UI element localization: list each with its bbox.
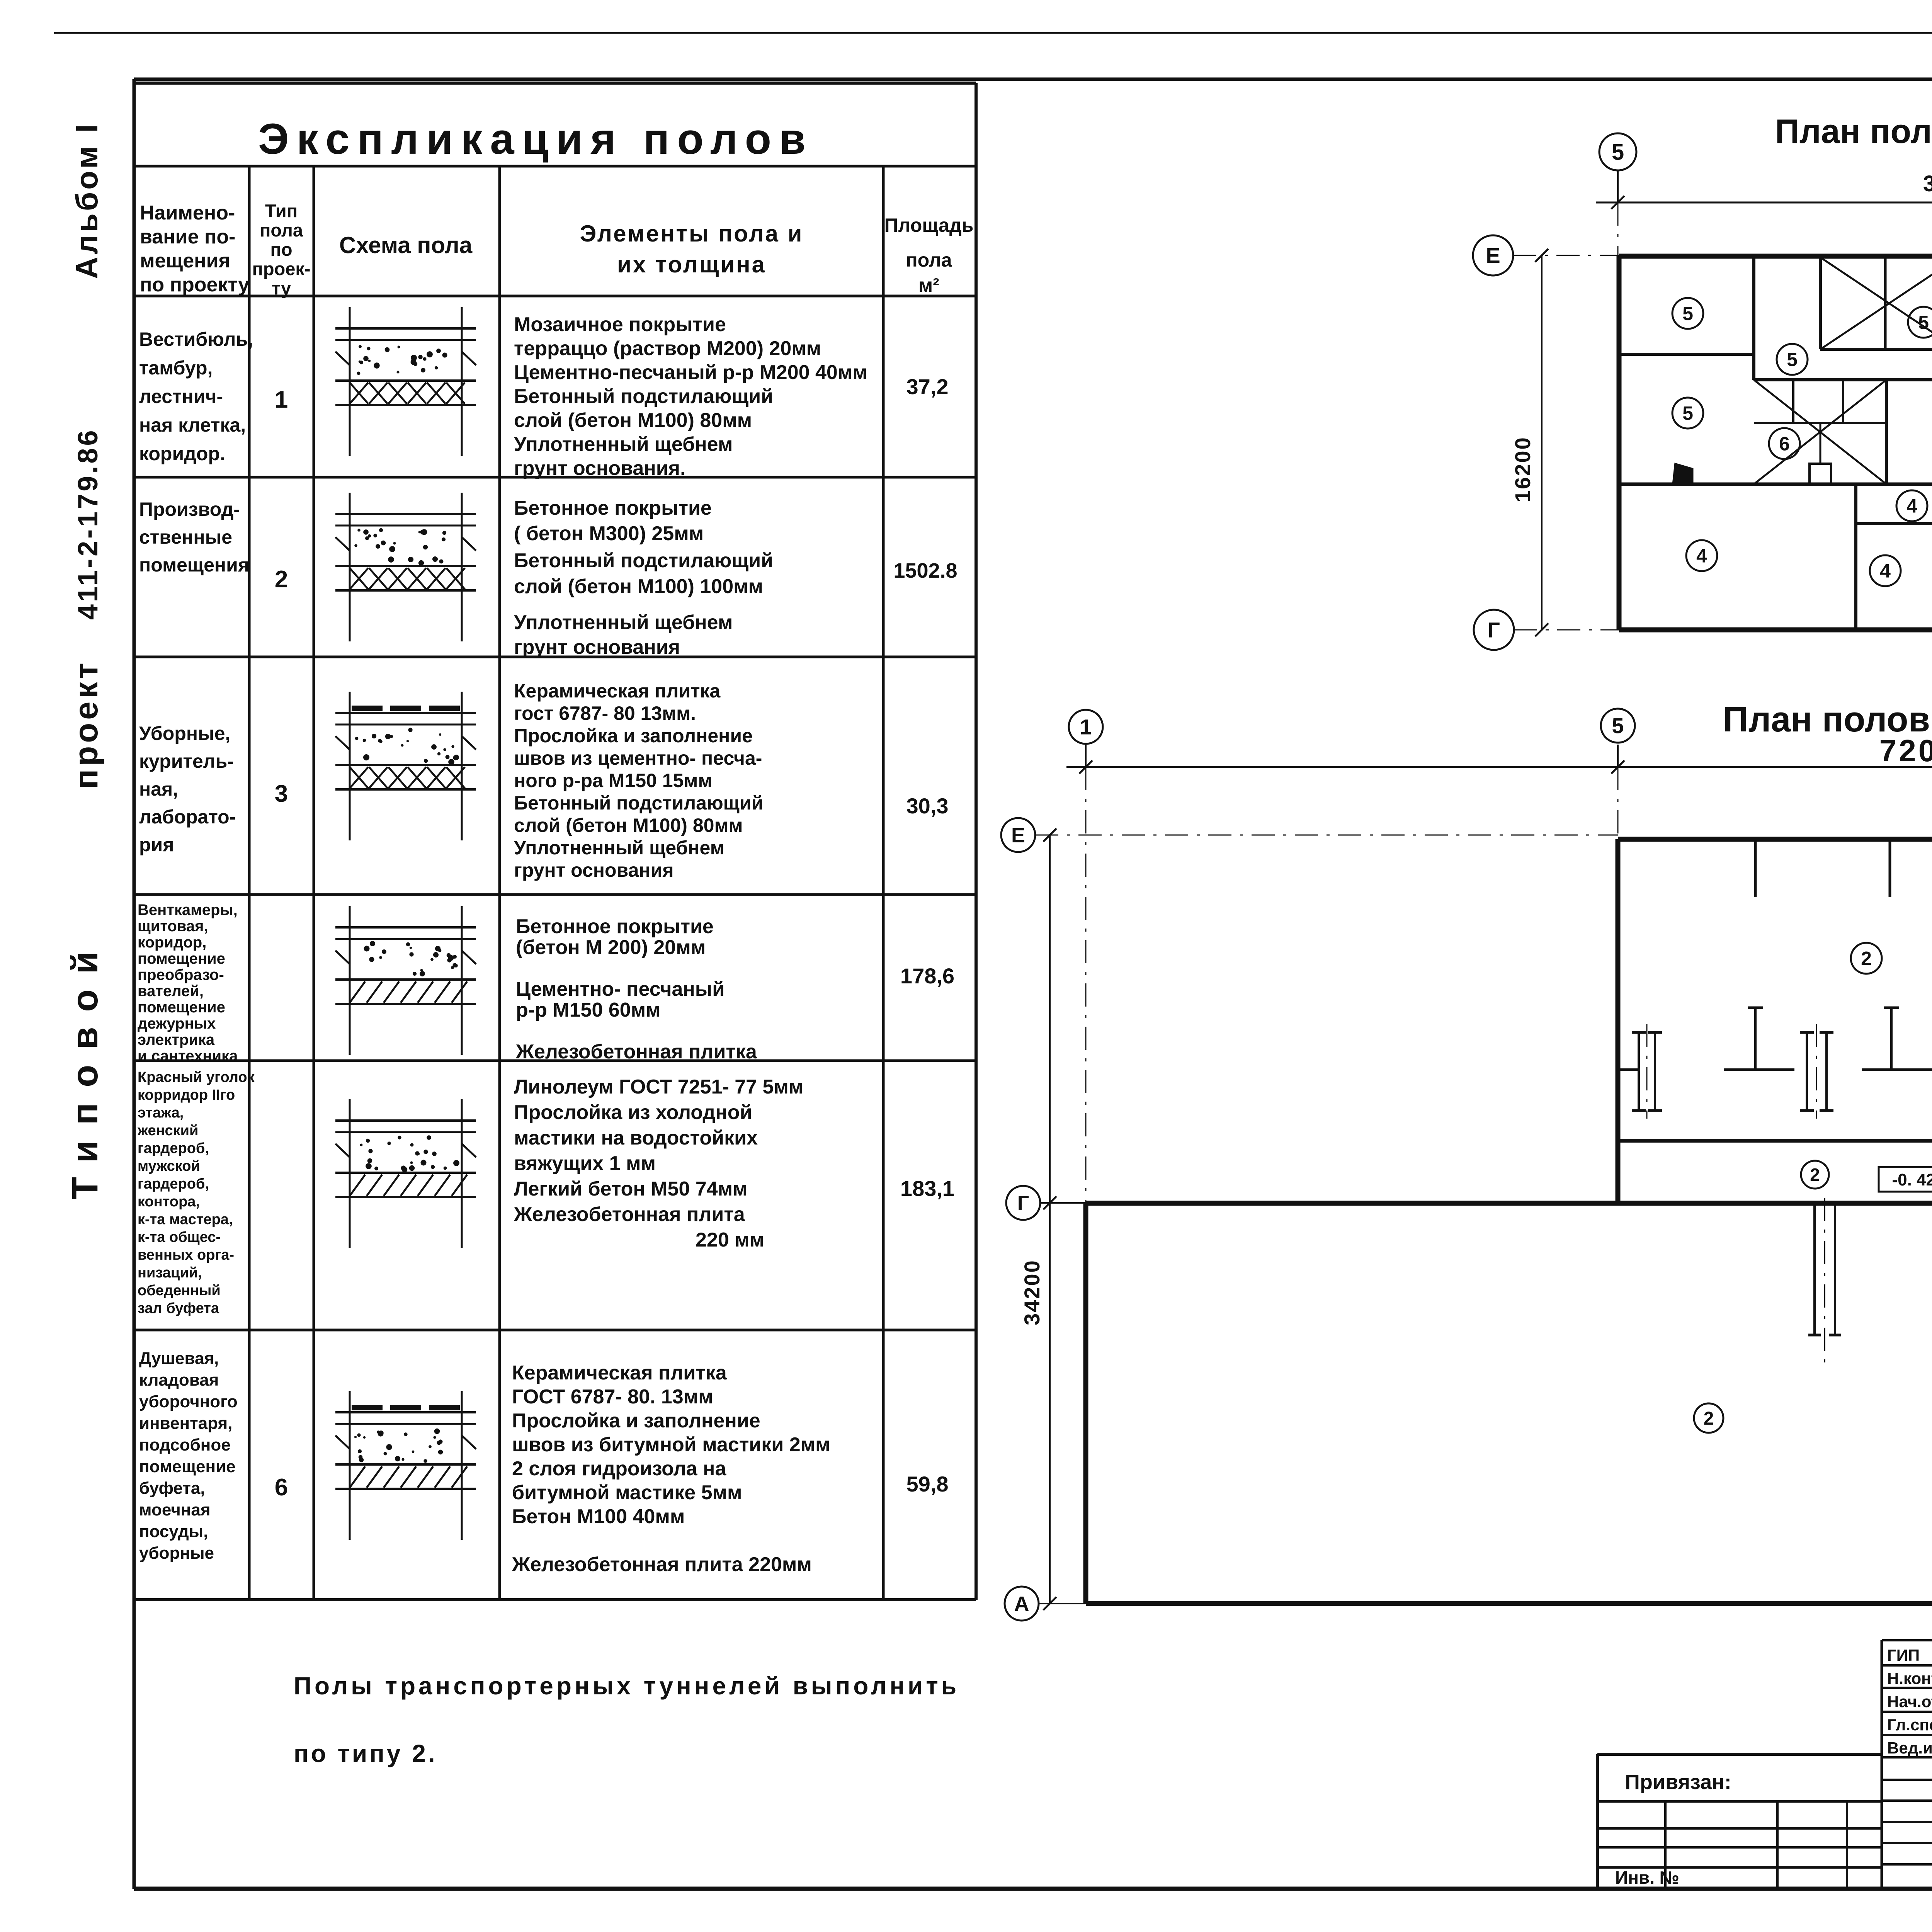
svg-text:Н.контр: Н.контр bbox=[1887, 1669, 1932, 1687]
svg-text:по: по bbox=[270, 239, 292, 260]
svg-text:Инв. №: Инв. № bbox=[1615, 1867, 1679, 1888]
svg-text:( бетон М300) 25мм: ( бетон М300) 25мм bbox=[514, 522, 704, 545]
svg-text:5: 5 bbox=[1612, 714, 1624, 738]
svg-text:Уплотненный щебнем: Уплотненный щебнем bbox=[514, 433, 733, 456]
svg-text:2: 2 bbox=[1810, 1165, 1820, 1185]
svg-text:грунт основания: грунт основания bbox=[514, 636, 680, 658]
svg-text:помещение: помещение bbox=[138, 950, 225, 967]
svg-text:3: 3 bbox=[275, 781, 288, 807]
svg-text:посуды,: посуды, bbox=[139, 1522, 208, 1541]
svg-text:слой (бетон М100) 100мм: слой (бетон М100) 100мм bbox=[514, 575, 763, 598]
svg-text:(бетон М 200) 20мм: (бетон М 200) 20мм bbox=[516, 936, 706, 959]
svg-text:лестнич-: лестнич- bbox=[139, 386, 223, 407]
svg-text:ГИП: ГИП bbox=[1887, 1646, 1920, 1664]
svg-text:лаборато-: лаборато- bbox=[139, 806, 236, 828]
svg-text:женский: женский bbox=[137, 1122, 198, 1139]
svg-text:Производ-: Производ- bbox=[139, 498, 240, 520]
svg-text:Г: Г bbox=[1017, 1192, 1029, 1215]
svg-text:мастики на водостойких: мастики на водостойких bbox=[514, 1127, 758, 1149]
svg-text:Схема пола: Схема пола bbox=[339, 232, 473, 258]
svg-text:этажа,: этажа, bbox=[138, 1105, 184, 1121]
svg-text:дежурных: дежурных bbox=[138, 1015, 216, 1032]
svg-text:уборочного: уборочного bbox=[139, 1392, 238, 1411]
svg-text:помещение: помещение bbox=[139, 1457, 236, 1476]
svg-text:Альбом I: Альбом I bbox=[70, 122, 104, 279]
svg-text:преобразо-: преобразо- bbox=[138, 966, 224, 983]
svg-text:Нач.отд.: Нач.отд. bbox=[1887, 1692, 1932, 1711]
svg-text:контора,: контора, bbox=[138, 1194, 200, 1210]
svg-text:инвентаря,: инвентаря, bbox=[139, 1414, 232, 1433]
svg-text:к-та мастера,: к-та мастера, bbox=[138, 1211, 233, 1228]
svg-text:4: 4 bbox=[1696, 545, 1707, 567]
svg-text:1: 1 bbox=[275, 386, 288, 413]
svg-text:помещение: помещение bbox=[138, 999, 225, 1016]
svg-text:Бетонный подстилающий: Бетонный подстилающий bbox=[514, 549, 773, 572]
svg-text:ственные: ственные bbox=[139, 526, 232, 548]
svg-text:37,2: 37,2 bbox=[906, 374, 949, 399]
svg-text:проек-: проек- bbox=[252, 259, 310, 279]
svg-text:их толщина: их толщина bbox=[617, 252, 766, 277]
svg-text:по типу 2.: по типу 2. bbox=[294, 1740, 437, 1767]
svg-text:Бетонный подстилающий: Бетонный подстилающий bbox=[514, 792, 763, 814]
svg-text:Красный уголок: Красный уголок bbox=[138, 1069, 255, 1085]
svg-text:по проекту: по проекту bbox=[140, 274, 249, 296]
svg-text:Уплотненный щебнем: Уплотненный щебнем bbox=[514, 837, 724, 859]
svg-text:ная,: ная, bbox=[139, 778, 178, 800]
svg-text:пола: пола bbox=[906, 249, 952, 271]
svg-text:5: 5 bbox=[1918, 312, 1929, 333]
svg-text:мужской: мужской bbox=[138, 1158, 200, 1174]
svg-text:буфета,: буфета, bbox=[139, 1479, 205, 1498]
svg-text:грунт основания: грунт основания bbox=[514, 859, 674, 881]
svg-text:Е: Е bbox=[1011, 824, 1025, 847]
svg-text:178,6: 178,6 bbox=[900, 964, 954, 988]
svg-text:щитовая,: щитовая, bbox=[138, 918, 208, 935]
svg-text:Наимено-: Наимено- bbox=[140, 202, 235, 224]
svg-text:5: 5 bbox=[1682, 303, 1693, 325]
svg-text:2: 2 bbox=[1704, 1408, 1714, 1429]
svg-text:ту: ту bbox=[272, 278, 291, 298]
svg-text:уборные: уборные bbox=[139, 1544, 214, 1563]
svg-text:гардероб,: гардероб, bbox=[138, 1140, 209, 1156]
svg-text:зал буфета: зал буфета bbox=[138, 1300, 219, 1316]
svg-text:проект: проект bbox=[68, 660, 105, 789]
svg-text:рия: рия bbox=[139, 834, 174, 855]
svg-text:220 мм: 220 мм bbox=[696, 1229, 764, 1251]
svg-text:Легкий бетон М50 74мм: Легкий бетон М50 74мм bbox=[514, 1178, 748, 1200]
svg-text:2: 2 bbox=[1861, 948, 1872, 969]
svg-text:Привязан:: Привязан: bbox=[1625, 1770, 1731, 1794]
svg-text:ГОСТ 6787- 80. 13: ГОСТ 6787- 80. 13мм bbox=[512, 1386, 713, 1408]
svg-text:Цементно- песчаный: Цементно- песчаный bbox=[516, 978, 724, 1000]
svg-text:ная клетка,: ная клетка, bbox=[139, 414, 246, 436]
svg-text:4: 4 bbox=[1906, 495, 1917, 517]
svg-text:кладовая: кладовая bbox=[139, 1371, 219, 1389]
svg-text:обеденный: обеденный bbox=[138, 1282, 221, 1299]
svg-text:Прослойка и заполнение: Прослойка и заполнение bbox=[514, 725, 753, 747]
svg-text:Вед.инж: Вед.инж bbox=[1887, 1739, 1932, 1757]
svg-text:30,3: 30,3 bbox=[906, 794, 949, 818]
svg-text:16200: 16200 bbox=[1510, 436, 1535, 502]
svg-text:мещения: мещения bbox=[140, 250, 230, 272]
svg-text:Мозаичное покрытие: Мозаичное покрытие bbox=[514, 313, 726, 336]
svg-text:Железобетонная плитка: Железобетонная плитка bbox=[515, 1041, 757, 1063]
svg-text:6: 6 bbox=[1779, 433, 1790, 455]
svg-text:швов из цементно- песча-: швов из цементно- песча- bbox=[514, 747, 762, 769]
svg-text:Уборные,: Уборные, bbox=[139, 723, 230, 744]
svg-text:битумной мастике 5мм: битумной мастике 5мм bbox=[512, 1481, 742, 1504]
svg-text:183,1: 183,1 bbox=[900, 1176, 954, 1201]
svg-text:5: 5 bbox=[1612, 139, 1624, 165]
svg-text:м²: м² bbox=[918, 274, 939, 296]
svg-text:2: 2 bbox=[275, 566, 288, 593]
svg-text:слой (бетон М100) 80м: слой (бетон М100) 80мм bbox=[514, 409, 752, 432]
svg-text:Железобетонная плита 220мм: Железобетонная плита 220мм bbox=[512, 1553, 812, 1576]
svg-text:Е: Е bbox=[1486, 243, 1500, 268]
svg-text:Железобетонная плита: Железобетонная плита bbox=[514, 1203, 745, 1226]
svg-text:1: 1 bbox=[1080, 715, 1092, 739]
svg-text:Прослойка и заполнение: Прослойка и заполнение bbox=[512, 1410, 760, 1432]
svg-text:Площадь: Площадь bbox=[884, 214, 974, 236]
svg-text:72000: 72000 bbox=[1879, 733, 1932, 768]
svg-text:34200: 34200 bbox=[1020, 1259, 1044, 1325]
svg-text:Уплотненный щебнем: Уплотненный щебнем bbox=[514, 611, 733, 634]
svg-text:Типовой: Типовой bbox=[65, 936, 105, 1199]
svg-text:-0. 425: -0. 425 bbox=[1892, 1170, 1932, 1189]
svg-text:Керамическая плитка: Керамическая плитка bbox=[512, 1362, 727, 1384]
svg-text:4: 4 bbox=[1880, 560, 1891, 582]
svg-text:Душевая,: Душевая, bbox=[139, 1349, 219, 1368]
svg-text:венных орга-: венных орга- bbox=[138, 1247, 234, 1263]
svg-text:помещения: помещения bbox=[139, 554, 249, 576]
svg-text:коридор,: коридор, bbox=[138, 934, 206, 951]
svg-text:корридор IIго: корридор IIго bbox=[138, 1087, 235, 1103]
svg-text:Линолеум ГОСТ 7251- 77 5мм: Линолеум ГОСТ 7251- 77 5мм bbox=[514, 1076, 803, 1098]
svg-text:терраццо (раствор М200) 20мм: терраццо (раствор М200) 20мм bbox=[514, 337, 821, 360]
svg-text:Гл.спец.: Гл.спец. bbox=[1887, 1716, 1932, 1734]
svg-text:слой (бетон М100) 80мм: слой (бетон М100) 80мм bbox=[514, 815, 743, 836]
svg-text:тамбур,: тамбур, bbox=[139, 357, 213, 379]
svg-text:вяжущих 1: вяжущих 1 мм bbox=[514, 1152, 656, 1175]
svg-text:Венткамеры,: Венткамеры, bbox=[138, 901, 238, 918]
svg-text:Вестибюль,: Вестибюль, bbox=[139, 328, 253, 350]
svg-text:коридор.: коридор. bbox=[139, 443, 225, 464]
svg-text:59,8: 59,8 bbox=[906, 1472, 949, 1496]
svg-text:Тип: Тип bbox=[265, 201, 298, 221]
svg-text:Цементно-песчаный р-р М200 40м: Цементно-песчаный р-р М200 40мм bbox=[514, 361, 867, 384]
svg-text:грунт основания.: грунт основания. bbox=[514, 457, 686, 480]
svg-text:гост 6787- 80 13: гост 6787- 80 13мм. bbox=[514, 702, 696, 724]
svg-text:вание по-: вание по- bbox=[140, 226, 235, 248]
svg-text:подсобное: подсобное bbox=[139, 1435, 231, 1454]
svg-text:30000: 30000 bbox=[1923, 171, 1932, 196]
svg-text:Бетонное покрытие: Бетонное покрытие bbox=[516, 915, 714, 938]
svg-text:Бетонное покрытие: Бетонное покрытие bbox=[514, 497, 712, 519]
svg-text:Прослойка из холодной: Прослойка из холодной bbox=[514, 1101, 752, 1124]
svg-text:и сантехника: и сантехника bbox=[138, 1048, 238, 1065]
svg-text:Г: Г bbox=[1488, 618, 1500, 642]
svg-text:Элементы пола и: Элементы пола и bbox=[580, 221, 804, 247]
svg-text:к-та общес-: к-та общес- bbox=[138, 1229, 221, 1245]
svg-text:вателей,: вателей, bbox=[138, 983, 204, 1000]
svg-text:р-р М150 60м: р-р М150 60мм bbox=[516, 999, 661, 1021]
svg-text:куритель-: куритель- bbox=[139, 750, 234, 772]
svg-text:1502.8: 1502.8 bbox=[893, 559, 957, 582]
svg-text:пола: пола bbox=[260, 220, 303, 240]
svg-text:5: 5 bbox=[1682, 403, 1693, 424]
svg-text:швов из битумной мастики 2мм: швов из битумной мастики 2мм bbox=[512, 1434, 830, 1456]
svg-text:А: А bbox=[1014, 1592, 1029, 1616]
svg-text:Полы транспортерных тунне: Полы транспортерных туннелей выполнить bbox=[294, 1672, 959, 1700]
svg-text:Бетонный подстилающий: Бетонный подстилающий bbox=[514, 385, 773, 408]
svg-text:План полов на отм. 4.800: План полов на отм. 4.800 bbox=[1775, 112, 1932, 150]
svg-text:низаций,: низаций, bbox=[138, 1265, 202, 1281]
svg-text:Бетон М100: Бетон М100 40мм bbox=[512, 1505, 685, 1528]
svg-text:411-2-179.86: 411-2-179.86 bbox=[73, 428, 104, 620]
svg-text:6: 6 bbox=[275, 1474, 288, 1501]
svg-text:ного р-ра М150 15мм: ного р-ра М150 15мм bbox=[514, 770, 712, 791]
svg-text:5: 5 bbox=[1787, 349, 1798, 371]
svg-text:2 слоя гидроизола на: 2 слоя гидроизола на bbox=[512, 1458, 726, 1480]
svg-text:Керамическая плитка: Керамическая плитка bbox=[514, 680, 721, 702]
svg-text:Экспликация полов: Экспликация полов bbox=[258, 115, 813, 163]
svg-text:моечная: моечная bbox=[139, 1500, 211, 1519]
svg-text:электрика: электрика bbox=[138, 1031, 215, 1048]
svg-text:гардероб,: гардероб, bbox=[138, 1176, 209, 1192]
